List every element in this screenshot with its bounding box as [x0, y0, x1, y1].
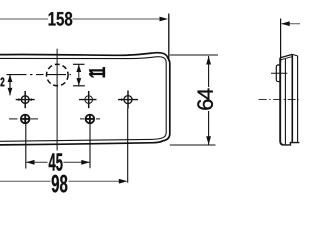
dimension 98 arrowhead: [119, 179, 128, 184]
circle horizontal center line: [7, 74, 72, 76]
side view extension line: [280, 19, 282, 63]
side view bottom: [284, 143, 300, 145]
dimension 98 text: [52, 175, 68, 193]
side view right edge 2: [297, 56, 299, 143]
dimension 11 line: [78, 64, 80, 86]
dimension 11 bottom tick: [73, 85, 85, 87]
left dimension 2 text (clipped at edge): [1, 77, 5, 86]
dimension 64 line: [208, 56, 210, 87]
side view top outer slant: [280, 54, 292, 57]
dimension 98 line: [0, 180, 51, 182]
side view right edge 1: [291, 54, 293, 142]
dashed circle (lamp hole): [47, 64, 69, 86]
mounting hole row1 #3: [118, 91, 138, 109]
dimension 64 extension line top: [170, 54, 218, 56]
dimension 64 arrows: [206, 56, 211, 65]
side view top right connector: [292, 54, 297, 56]
extension line hole col3: [127, 109, 129, 183]
side view left front face: [280, 58, 284, 145]
dimension 158 text: [49, 12, 73, 26]
side view top inner slant: [280, 57, 292, 60]
side view mounting stud: [276, 65, 280, 82]
dimension 45 text: [49, 153, 63, 170]
dimension 158 line: [0, 18, 48, 20]
bolt hole row2 #1: [9, 115, 38, 124]
dimension 158 extension line: [168, 14, 170, 62]
extension line hole col1: [25, 124, 27, 169]
dimension 64 text (rotated): [197, 88, 213, 109]
dimension 11 top tick: [73, 63, 85, 65]
dimension 11 text (rotated): [89, 67, 105, 77]
front view inner lens line: [0, 57, 166, 142]
extension line hole col2: [89, 124, 91, 168]
side view stud cross line: [271, 72, 287, 74]
mounting hole row1 #1: [16, 91, 35, 108]
bolt hole row2 #2: [80, 115, 100, 124]
dimension 64 extension line bottom: [170, 144, 216, 146]
vertical center line: [56, 49, 58, 151]
side view dimension line (cut off at right): [282, 23, 301, 25]
front view outer contour: [0, 53, 170, 145]
dimension 11 arrows: [76, 65, 81, 72]
dimension 158 arrowhead: [160, 17, 169, 22]
side view dimension arrowhead: [281, 21, 290, 26]
side view horizontal center line: [259, 98, 299, 100]
left dimension 2 arrows: [8, 75, 13, 82]
left dimension 2 line: [9, 75, 11, 96]
dimension 45 line: [26, 161, 47, 163]
dimension 45 arrows: [26, 160, 35, 165]
mounting hole row1 #2: [79, 91, 97, 108]
side view inner vertical: [284, 59, 286, 145]
